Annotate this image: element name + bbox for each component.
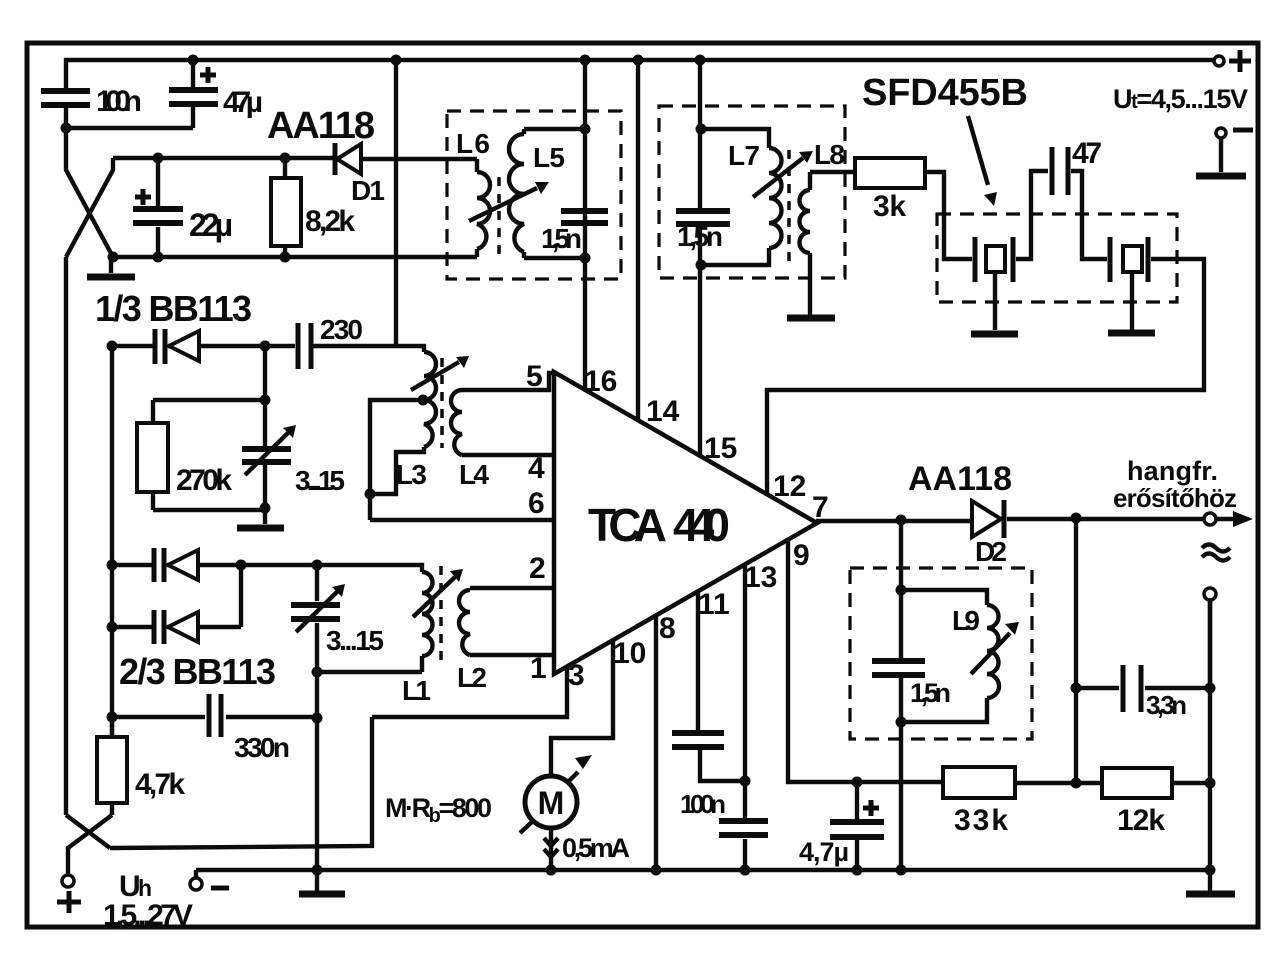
wire x=317 down to bus and ground [315,672,319,891]
svg-text:4: 4 [528,452,545,485]
wire 47u top stem [191,60,195,87]
wire 3k to resonator1 [925,172,972,259]
plus sign 22u [135,189,151,205]
wire L8 bottom to ground [808,253,812,315]
variable arrow L3 [411,362,459,390]
svg-text:4,7k: 4,7k [135,768,185,801]
wire right riser x=1210 [1208,601,1212,891]
wire node y=128 between 100n and 47u [66,126,193,130]
capacitor 47 [1052,147,1068,195]
trimmer arrow (first) [245,431,290,475]
svg-text:1,5n: 1,5n [677,221,723,252]
svg-text:9: 9 [793,539,810,572]
svg-text:4,7µ: 4,7µ [799,837,849,867]
wire X-cross lower legs [66,815,110,848]
node 270k top/bottom [260,395,271,406]
ground at BB113 rail [109,257,113,273]
wire 4.7k stems [110,717,114,815]
wire pin7 output row [816,519,970,523]
wire 8.2k stems [283,158,287,178]
variable arrow L9 [971,633,1010,674]
svg-text:100n: 100n [680,789,726,819]
svg-text:22µ: 22µ [189,207,233,243]
capacitor 1.5n (L7 box) [676,211,730,224]
svg-text:3...15: 3...15 [295,465,345,496]
dashed box L6 L5 [447,111,621,279]
ground at L8 [787,315,835,322]
svg-text:8: 8 [659,612,676,645]
core L3/L4 [440,358,444,448]
trimmer capacitor 3...15 (first) [242,449,291,462]
resonator 1 (SFD455B) [973,237,978,282]
wire rail y=158 to D1 [113,156,333,160]
output arrowhead [1233,511,1253,527]
svg-text:L2: L2 [457,662,487,693]
output terminal lower [1204,588,1216,600]
terminal + (Uh) [62,875,74,887]
wire resonator1 to 47 cap [1016,171,1048,259]
plus sign Ut [1229,50,1251,72]
wire x=112 vertical varactor rail [110,346,114,737]
capacitor 47u electrolytic [169,90,218,104]
node AGC row [852,777,863,788]
inductor L6 [477,172,490,249]
svg-text:2/3 BB113: 2/3 BB113 [119,651,276,692]
dashed box SFD455B [937,214,1177,302]
wire varactor D4 row y=565 [112,563,317,567]
svg-text:D1: D1 [351,175,385,206]
inductor L5 [509,134,524,252]
svg-text:16: 16 [584,365,617,398]
wire pin 14 riser [636,60,640,420]
wire pin 5 from L4 top [462,373,554,390]
wire pin 2 from L2 top [470,586,554,590]
dashed box L9 [850,568,1032,739]
wire riser x=372 from pin3 wire to bottom X wire [110,717,372,848]
svg-text:330n: 330n [234,732,290,763]
ground resonator 1 [971,331,1018,338]
capacitor 4.7u electrolytic [830,822,884,837]
plus sign 4.7u [863,800,879,816]
varactor diode 2/3 BB113 lower [154,610,164,644]
meter scale chevrons [544,838,558,857]
wire 3.3n row y=688 [1076,686,1210,690]
svg-text:L8: L8 [814,139,845,170]
wire pin 6 [370,518,554,522]
wire vertical x=396 from rail to L3 wire [394,60,398,346]
svg-text:10: 10 [613,637,646,670]
wire 100n bottom to node [64,108,68,128]
svg-text:5: 5 [526,360,543,393]
inductor L7 [769,148,782,248]
svg-text:15: 15 [704,432,737,465]
capacitor 230 [298,323,311,369]
wire output lower terminal stem [1208,600,1212,688]
wire top supply rail y=60 [64,58,1215,62]
svg-text:L4: L4 [459,459,489,490]
wire 47 cap to resonator2 [1071,171,1107,259]
svg-text:AA118: AA118 [267,105,375,147]
wire pin 11 to 100n [696,591,700,730]
svg-text:D2: D2 [975,536,1007,567]
wire L9 tank riser x=901 [899,521,903,870]
capacitor 330n [209,694,221,737]
node 3.3n row [1071,683,1082,694]
resistor 8.2k [271,178,301,246]
wire 230 cap to L3 top [313,346,424,352]
node L5 tank [580,124,591,135]
svg-text:erősítőhöz: erősítőhöz [1113,483,1237,513]
wire output arrow tail [1217,517,1234,521]
svg-text:33k: 33k [954,804,1008,837]
wire pin 3 [372,666,567,717]
plus sign Uh [57,891,81,913]
wire L9 top/bottom links [901,590,987,722]
wire L3 tap to pin6 riser [370,400,423,520]
wire D1 anode to L6 top [361,157,477,161]
core L1/L2 [439,566,443,668]
wire ground rail y=257 [113,255,477,259]
capacitor 1.5n (L9 box) [872,661,925,675]
plus sign 47u [200,67,216,83]
meter arrow [520,772,578,833]
resistor 12k [1102,768,1172,798]
wire left vertical x=66 down [64,257,68,815]
svg-text:TCA: TCA [588,499,667,551]
svg-text:1/3 BB113: 1/3 BB113 [95,288,252,329]
SFD455B pointer arrow [968,116,988,185]
wire Ut minus terminal stem [1219,138,1223,172]
wire pin 10 to meter [551,640,613,777]
approx symbol [1202,545,1230,561]
wire X-cross upper right leg [66,158,113,257]
wire L5 tank top/bottom links [524,129,585,258]
svg-text:1,5...27V: 1,5...27V [103,899,193,932]
meter M [525,776,577,828]
wire pin 8 [654,615,658,870]
capacitor 22u electrolytic [133,209,183,223]
node varactor lower row [107,622,118,633]
ground bottom right (x=1210) [1186,891,1235,898]
terminal - (Ut) [1216,128,1226,138]
svg-text:12: 12 [773,470,806,503]
wire L7 tank top/bottom links [701,129,769,265]
svg-text:hangfr.: hangfr. [1127,456,1218,486]
wire pin 13 [743,564,747,870]
variable arrow L1 [413,577,455,617]
wire pin 15 riser [698,60,702,456]
node L9 tank [896,585,907,596]
resistor 33k [943,767,1015,798]
svg-text:L5: L5 [533,142,565,173]
core L7/L8 [787,150,791,265]
wire 4.7u stems [855,782,859,870]
capacitor 1.5n (L5 box) [561,211,608,223]
svg-text:1: 1 [530,652,547,685]
node L3 tap [418,395,429,406]
node L1 top row [107,560,118,571]
wire 47u bottom stem [191,107,195,128]
wire pin 1 from L2 bottom [470,653,554,657]
resistor 3k [855,158,925,188]
wire varactor D3 row y=346 [112,344,153,348]
variable arrow L6/L5 [469,188,537,221]
capacitor 100n (pin 11) [672,733,724,747]
dashed box L7 L8 [659,106,845,278]
wire L6 stubs [475,159,479,257]
minus sign Uh [211,886,229,891]
svg-text:230: 230 [320,314,363,345]
svg-text:SFD455B: SFD455B [862,72,1028,114]
varactor diode 1/3 BB113 [155,329,165,364]
node pin7 output [896,515,907,526]
ground resonator 2 [1108,330,1155,337]
inductor L1 [422,572,433,656]
inductor L9 [987,605,999,698]
wire varactor D5 branch [112,565,241,627]
svg-text:M: M [538,785,565,821]
wire L3 bottom return [370,447,424,494]
wire pin 9 to AGC divider [788,540,943,782]
wire X-cross upper left leg [66,128,113,257]
svg-text:L7: L7 [728,140,760,171]
varactor diode 2/3 BB113 upper [154,548,164,582]
node 100n/47u bottom [61,123,72,134]
svg-text:3...15: 3...15 [326,625,384,656]
svg-text:47: 47 [1072,137,1102,170]
inductor L2 [459,590,470,655]
svg-text:13: 13 [744,561,777,594]
node 330n rail [107,712,118,723]
wire L1 bottom y=672 [317,656,422,672]
wire 33k-12k node riser x=1076 [1074,518,1078,783]
output terminal upper [1204,513,1216,525]
capacitor 100n (top left) [41,91,90,105]
svg-text:2: 2 [529,552,546,585]
node varactor row [107,341,118,352]
wire trimmer2 riser x=317 [315,565,319,672]
terminal - (Uh) [190,878,202,890]
node pin13 join [740,776,751,787]
inductor L3 [424,352,436,447]
wire 33k to 12k [1015,781,1102,785]
inductor L4 [451,390,462,455]
node y257 rail [108,252,119,263]
capacitor 100n (pin 13) [719,821,768,835]
wire 100n left stem from rail corner [64,58,68,88]
wire L1 top [317,565,422,572]
svg-text:12k: 12k [1117,804,1165,837]
wire 22u stems [156,158,160,206]
svg-text:270k: 270k [176,464,232,497]
wire pin 4 from L4 bottom [462,453,554,457]
wire 270k top link [153,346,265,446]
ground bottom left (x=322) [299,891,345,898]
svg-text:8,2k: 8,2k [305,205,355,238]
node L7 tank [696,124,707,135]
svg-text:14: 14 [646,395,680,428]
diode D2 AA118 [972,501,1001,537]
wire 330n rail y=717 [112,715,317,719]
wire pin 16 riser [583,60,587,390]
svg-text:M·Rb=800: M·Rb=800 [385,793,492,827]
svg-text:6: 6 [528,487,545,520]
IC TCA440 triangle [554,372,817,674]
trimmer arrow (second) [296,590,339,632]
diode D1 AA118 [333,143,338,175]
node L3 return [365,489,376,500]
svg-text:1,5n: 1,5n [910,678,951,708]
minus sign Ut [1233,128,1253,133]
trimmer capacitor 3...15 (second) [291,605,340,619]
svg-text:L6: L6 [456,128,490,159]
variable arrow L7 [753,158,803,197]
wire resonator ground stems [995,271,1132,330]
node y158 rail [153,153,164,164]
terminal + (Ut) [1214,56,1224,66]
svg-text:3k: 3k [873,190,906,223]
wire 100n bottom to pin13 line [700,750,745,781]
ground at 270k/trimmer [237,525,284,532]
ground at Ut minus [1196,173,1246,180]
svg-text:440: 440 [673,499,730,551]
svg-text:L3: L3 [396,459,427,490]
core L6/L5 [497,177,501,255]
svg-text:11: 11 [698,588,730,621]
svg-text:3,3n: 3,3n [1146,690,1187,720]
node bus junctions [312,865,323,876]
capacitor 3.3n [1123,665,1141,712]
resistor 4.7k [97,737,127,803]
resistor 270k [137,423,168,492]
wire ground bus y=870 [196,870,1210,878]
svg-text:L9: L9 [952,605,980,636]
svg-text:100n: 100n [96,85,142,118]
wire resonator2 out and feedback to pin 12 [767,259,1204,392]
svg-text:1,5n: 1,5n [541,223,582,254]
wire L8 top to 3k [810,172,855,190]
resonator 2 (SFD455B) [1108,237,1113,282]
svg-text:3: 3 [568,659,585,692]
svg-text:47µ: 47µ [223,86,263,119]
node rail junctions [188,55,199,66]
inductor L8 [800,190,810,253]
wire pin 12 drop [765,390,769,495]
svg-text:AA118: AA118 [908,460,1012,498]
wire 270k bottom link [153,465,265,524]
svg-text:L1: L1 [402,675,431,706]
node L1 bottom [312,667,323,678]
svg-text:7: 7 [812,491,829,524]
wire meter bottom stem [549,827,553,870]
wire 12k to right riser [1172,781,1210,785]
svg-text:0,5mA: 0,5mA [562,833,630,863]
